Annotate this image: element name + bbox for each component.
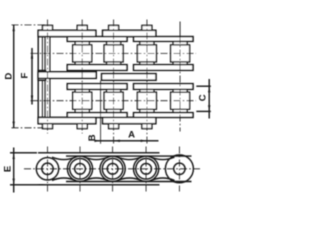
bushing B3 strand1	[107, 41, 121, 65]
dimension D line	[13, 25, 15, 128]
inner plate link45 bottom mid-face	[134, 84, 193, 90]
side plate waist contour bottom between pins	[118, 178, 142, 180]
middle plate left end cap	[38, 71, 46, 81]
side view pin 3 vertical centerline	[112, 147, 114, 192]
bushing B2 strand1	[75, 41, 89, 65]
pin P3 head bottom	[109, 124, 119, 129]
outer plate link12 bottom	[38, 117, 96, 123]
dimension E bottom arrow	[13, 179, 15, 185]
side inner plate bottom edge	[66, 181, 192, 183]
dimension B left arrow	[94, 140, 100, 142]
pin P4 head bottom	[142, 124, 152, 129]
svg-text:D: D	[3, 73, 14, 80]
dimension E top arrow	[13, 153, 15, 159]
dimension A right arrow	[141, 140, 147, 142]
side roller circle 4	[136, 159, 157, 180]
dimension C bottom extension	[196, 110, 211, 112]
side plate waist contour top between pins	[85, 157, 109, 159]
inner plate link45 top outer-face	[134, 37, 193, 42]
dimension F top arrow	[31, 52, 33, 58]
side plate end arc at pin 4	[134, 156, 159, 181]
pin P1 body	[45, 37, 50, 118]
dimension E top extension	[10, 152, 37, 154]
outer plate link34 bottom	[103, 117, 156, 123]
dimension C line	[208, 79, 210, 119]
side view pin 5 vertical centerline	[178, 147, 180, 192]
dimension A left arrow	[114, 140, 120, 142]
dimension C top arrow	[208, 86, 210, 92]
bushing B5 strand1	[173, 41, 187, 65]
side plate waist contour top between pins	[118, 157, 142, 159]
pin P5 centerline	[179, 37, 181, 132]
pin P3 centerline (A dim extension)	[113, 20, 115, 144]
dimension A/B line	[95, 140, 158, 142]
side view pin 4 vertical centerline	[145, 147, 147, 192]
side pin circle 2	[75, 163, 86, 174]
bushing B4 strand2	[140, 89, 154, 112]
pin P2 head top	[77, 25, 87, 30]
bushing B2 strand2	[75, 89, 89, 112]
side outer plate top edge	[38, 152, 160, 154]
outer plate link12 top	[38, 30, 96, 36]
pin P4 head top	[142, 25, 152, 30]
dimension D bottom arrow	[13, 122, 15, 128]
roller R4 strand1	[137, 45, 156, 62]
svg-text:E: E	[2, 166, 13, 172]
svg-text:C: C	[198, 94, 209, 101]
dimension F line	[31, 48, 33, 105]
side view pin 2 vertical centerline	[79, 147, 81, 192]
side plate waist contour bottom between pins	[151, 178, 175, 180]
svg-text:B: B	[87, 134, 98, 141]
strand 1 centerline	[31, 52, 197, 54]
chain left end inner edge	[41, 37, 43, 118]
inner plate link23 bottom outer-face	[67, 113, 127, 118]
pin P4 centerline (A dim extension)	[146, 20, 148, 144]
roller R5 strand2	[171, 92, 190, 109]
side bushing circle pin 1	[42, 163, 53, 174]
bushing B4 strand1	[140, 41, 154, 65]
side view horizontal centerline	[24, 168, 200, 170]
roller R2 strand2	[73, 92, 92, 109]
side roller circle 3	[102, 159, 123, 180]
pin P3 head top	[109, 25, 119, 30]
middle plate link12	[38, 72, 96, 79]
inner plate link23 top outer-face	[67, 37, 127, 42]
dimension D bottom extension (dash-dot)	[12, 127, 44, 129]
strand 2 centerline	[31, 100, 197, 102]
side plate waist contour bottom between pins	[52, 178, 76, 180]
roller R5 strand1	[171, 45, 190, 62]
inner plate link23 bottom mid-face	[67, 84, 127, 90]
chain left end silhouette edge	[37, 30, 39, 123]
side plate waist contour top between pins	[151, 157, 175, 159]
bushing B3 strand2	[107, 89, 121, 112]
dimension E bottom extension	[10, 184, 44, 186]
inner plate link45 top mid-face	[134, 65, 193, 71]
side outer plate bottom edge	[38, 184, 160, 186]
dimension B extension line	[100, 81, 102, 144]
side plate end arc at pin 2	[67, 156, 92, 181]
side pin circle 3	[107, 163, 118, 174]
side plate end arc at pin 1	[36, 158, 58, 180]
svg-text:A: A	[128, 130, 135, 141]
dimension C bottom arrow	[208, 105, 210, 111]
roller R4 strand2	[137, 92, 156, 109]
side plate end arc at pin 5	[165, 155, 193, 183]
dimension D top arrow	[13, 25, 15, 31]
dimension D top extension (dash-dot)	[12, 24, 45, 26]
bushing B5 strand2	[173, 89, 187, 112]
roller R2 strand1	[73, 45, 92, 62]
svg-text:F: F	[20, 73, 31, 79]
side plate waist contour top between pins	[52, 157, 76, 159]
inner plate link45 bottom outer-face	[134, 113, 193, 118]
pin P1 head bottom	[43, 124, 53, 129]
dimension C top extension	[196, 85, 211, 87]
pin P2 head bottom	[77, 124, 87, 129]
dimension E line	[13, 148, 15, 193]
side plate waist contour bottom between pins	[85, 178, 109, 180]
inner plate link23 top mid-face	[67, 65, 127, 71]
pin P2 centerline	[81, 20, 83, 134]
roller R3 strand1	[104, 45, 123, 62]
side bushing circle pin 5	[174, 163, 185, 174]
roller R3 strand2	[104, 92, 123, 109]
dimension F bottom arrow	[31, 96, 33, 102]
side plate end arc at pin 3	[100, 156, 125, 181]
pin P5 top end line	[179, 22, 181, 37]
pin P1 centerline	[47, 20, 49, 134]
side pin circle 4	[141, 163, 152, 174]
side inner plate top edge	[66, 155, 192, 157]
middle plate link34	[102, 74, 156, 81]
side view pin 1 vertical centerline	[47, 147, 49, 192]
pin P1 head top	[43, 25, 53, 30]
outer plate link34 top	[103, 30, 156, 36]
side roller circle 2	[70, 159, 91, 180]
